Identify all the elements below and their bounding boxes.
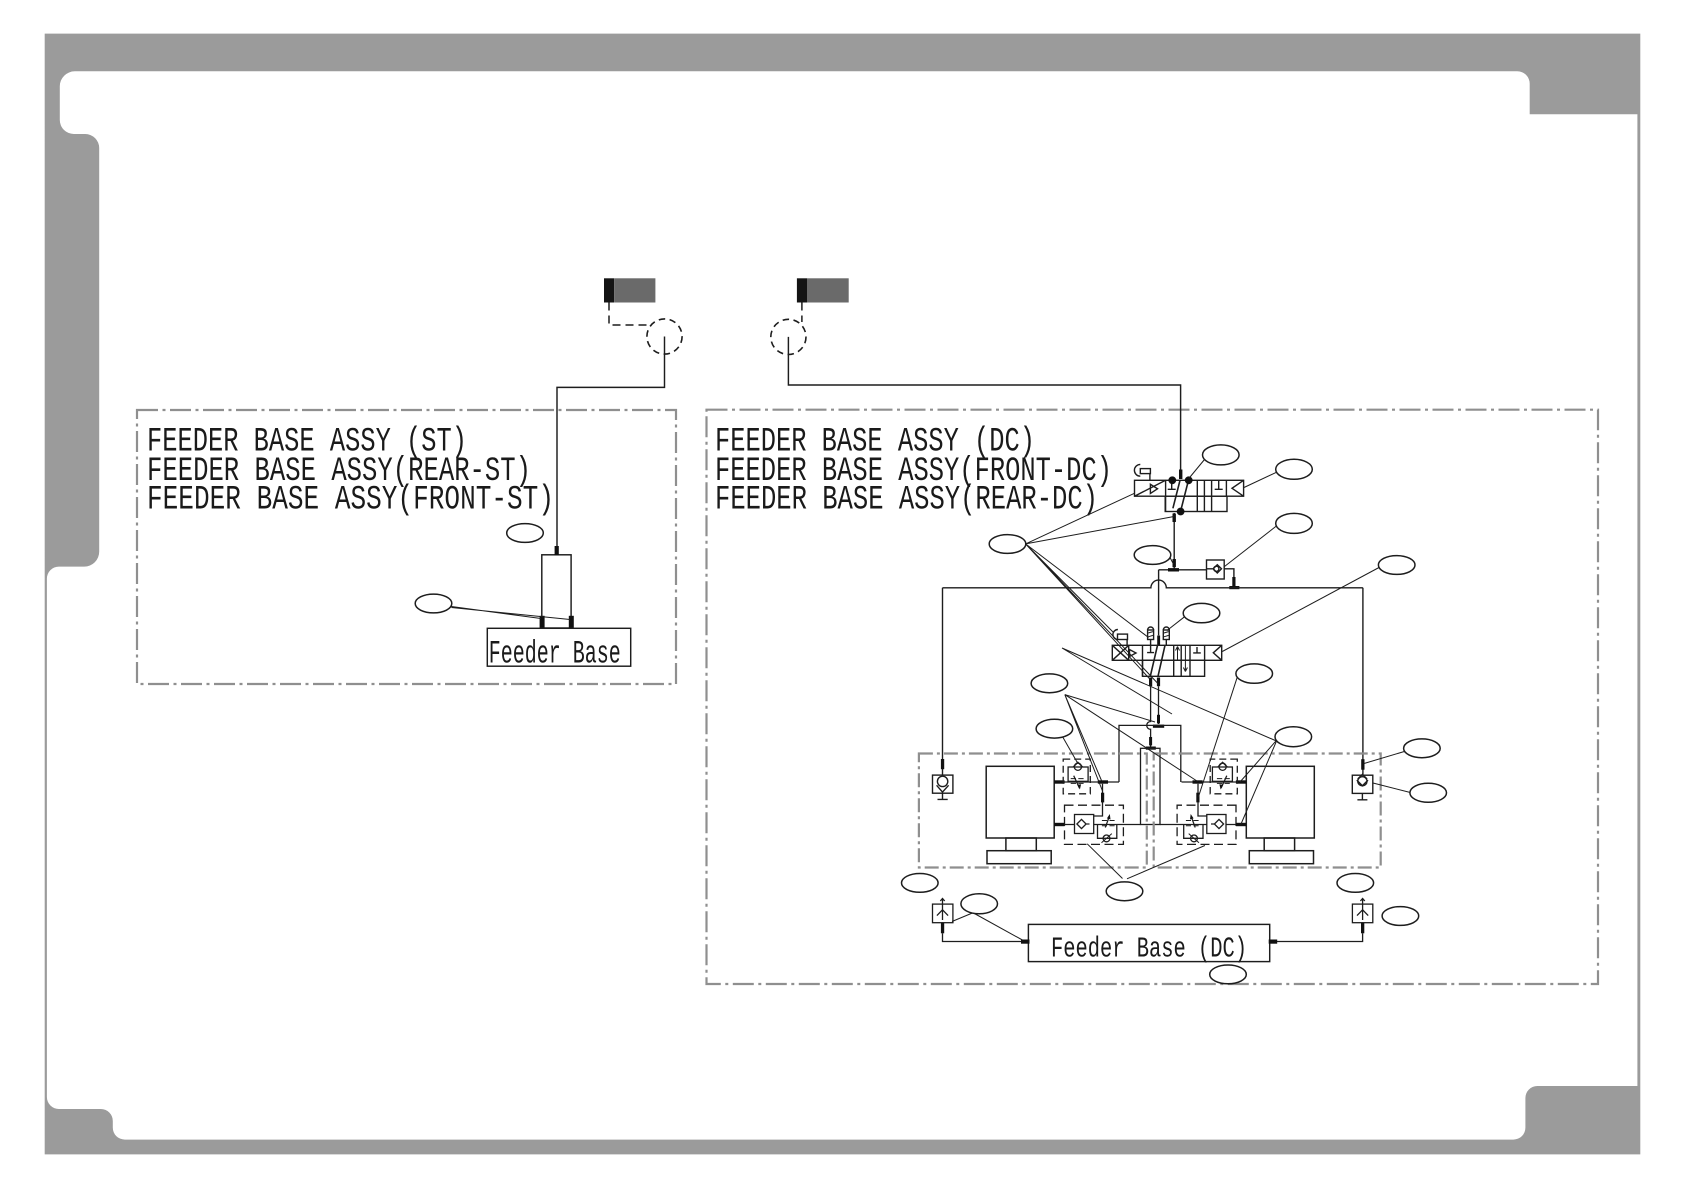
dashed lead right	[801, 303, 803, 323]
port tick bottom-right	[569, 616, 574, 628]
dashed lead left	[609, 303, 648, 326]
exhaust throttle muffler left V2	[1148, 627, 1154, 630]
balloon: lower controllers (bottom centre)	[1106, 882, 1143, 901]
balloon: right speed controller	[1275, 727, 1312, 747]
port tick top	[555, 546, 559, 555]
svg-text:Feeder Base (DC): Feeder Base (DC)	[1051, 932, 1247, 965]
wire: supply rail (with hop)	[943, 580, 1363, 588]
balloon: right silencer	[1382, 907, 1419, 926]
wire: V2 output B (left) hops branch, to down-pipe	[1147, 686, 1151, 747]
connector circle right (dashed)	[771, 319, 806, 354]
exhaust check valve right	[1352, 775, 1373, 793]
Feeder Base label box	[487, 628, 630, 666]
speed controller upper (dashed box)	[1063, 759, 1090, 794]
wire: CV1 to rail	[1224, 569, 1234, 588]
balloon (ports)	[415, 594, 452, 613]
throttle arrow	[1074, 776, 1080, 789]
port tick bottom-left	[540, 616, 545, 628]
wire: right circle to DC valve V1	[788, 337, 1180, 470]
balloon (cylinder)	[507, 524, 544, 543]
exhaust silencer right	[1352, 904, 1372, 923]
solenoid diagonal V1	[1135, 480, 1166, 496]
balloon: V1 port	[1203, 445, 1240, 465]
solenoid X V2	[1112, 645, 1128, 660]
manual override symbol V2	[1113, 630, 1118, 640]
wire: branch line	[1119, 725, 1181, 782]
svg-text:FEEDER BASE ASSY(FRONT-ST): FEEDER BASE ASSY(FRONT-ST)	[147, 482, 554, 520]
wire: lower flow line y=824.5	[1054, 824, 1140, 826]
cylinder (ST)	[542, 555, 571, 628]
pointer wedge (long thin leader arrow to down-pipe area)	[1062, 648, 1281, 743]
spring return V2	[1213, 645, 1221, 660]
balloon: valves multi-leader	[989, 535, 1026, 554]
exhaust throttle muffler right V2	[1163, 627, 1169, 630]
wire: junction drop to lower controller	[1094, 784, 1103, 816]
wire: rail right drop	[1362, 588, 1364, 775]
exhaust silencer left	[933, 904, 953, 923]
valve V2 body	[1112, 645, 1221, 660]
flow arrows in narrow cells V2	[1176, 647, 1180, 661]
balloon: below Feeder Base (DC)	[1210, 965, 1247, 984]
leader lines to port ticks	[451, 607, 570, 620]
sensor flag right (black+gray)	[797, 278, 849, 302]
supply fitting tick above V1	[1179, 470, 1182, 480]
balloon: right exhaust check	[1337, 874, 1374, 893]
balloon: check valve CV1	[1276, 513, 1313, 533]
cylinder block	[986, 766, 1054, 838]
outlet ticks below V2	[1149, 678, 1152, 687]
speed controller lower (dashed box)	[1065, 805, 1124, 844]
wire: rail left drop	[942, 588, 944, 775]
svg-text:FEEDER BASE ASSY(REAR-DC): FEEDER BASE ASSY(REAR-DC)	[715, 482, 1098, 520]
balloon: right exhaust check 2	[1410, 783, 1447, 802]
blocked port T V2	[1193, 647, 1201, 653]
sensor flag left (black+gray)	[604, 278, 655, 302]
wire: silencer left to label box	[943, 933, 1029, 941]
balloon: V2 muffler	[1183, 603, 1220, 622]
balloon: center fittings multi-leader	[1031, 674, 1068, 693]
wire: upper flow line y=782	[1054, 781, 1119, 783]
exhaust check valve left	[933, 775, 953, 793]
knob box + circle	[1098, 825, 1117, 839]
throttle arrow lower	[1105, 817, 1109, 828]
port dots V1	[1168, 476, 1192, 515]
balloon: left speed controller	[1036, 719, 1073, 738]
balloon: right branch fitting	[1236, 664, 1273, 683]
cylinder group right (mirror)	[1160, 759, 1314, 864]
wire: junction horizontal	[1159, 569, 1207, 571]
balloon: junction fitting	[1134, 546, 1171, 565]
valve V1 body	[1135, 480, 1244, 496]
down-pipe rectangle to Feeder Base (DC)	[1141, 748, 1161, 824]
check valve CV1	[1207, 560, 1225, 579]
balloon: V1 spring	[1276, 459, 1313, 479]
check valve square	[1075, 815, 1094, 834]
pedestal base	[987, 851, 1051, 864]
spring return V1	[1232, 480, 1244, 496]
pilot triangle V1	[1150, 484, 1157, 493]
connector circle left (dashed)	[647, 319, 682, 354]
manual override symbol V1	[1134, 464, 1140, 476]
wire: left circle to ST cylinder	[557, 337, 665, 547]
svg-text:Feeder Base: Feeder Base	[489, 635, 621, 672]
pilot triangle V2	[1130, 650, 1137, 657]
balloon: left silencer	[961, 894, 998, 914]
crossed flow paths V1	[1173, 480, 1188, 511]
blocked port T symbols V1	[1168, 481, 1223, 489]
crossed flow paths V2	[1150, 645, 1165, 676]
check diamond + ball	[1073, 762, 1082, 767]
balloon: left exhaust check	[902, 874, 939, 893]
balloon: rail tick right	[1404, 739, 1441, 758]
wire: V2 output A (right) to branch	[1158, 686, 1160, 724]
wire: silencer right to label box	[1270, 933, 1363, 941]
pedestal	[1006, 838, 1036, 851]
wire: V1 bottom to junction	[1173, 513, 1175, 570]
balloon: V2 spring (far right)	[1378, 556, 1415, 575]
Feeder Base (DC) box	[1028, 924, 1269, 961]
wire: junction down to V2	[1158, 570, 1160, 636]
